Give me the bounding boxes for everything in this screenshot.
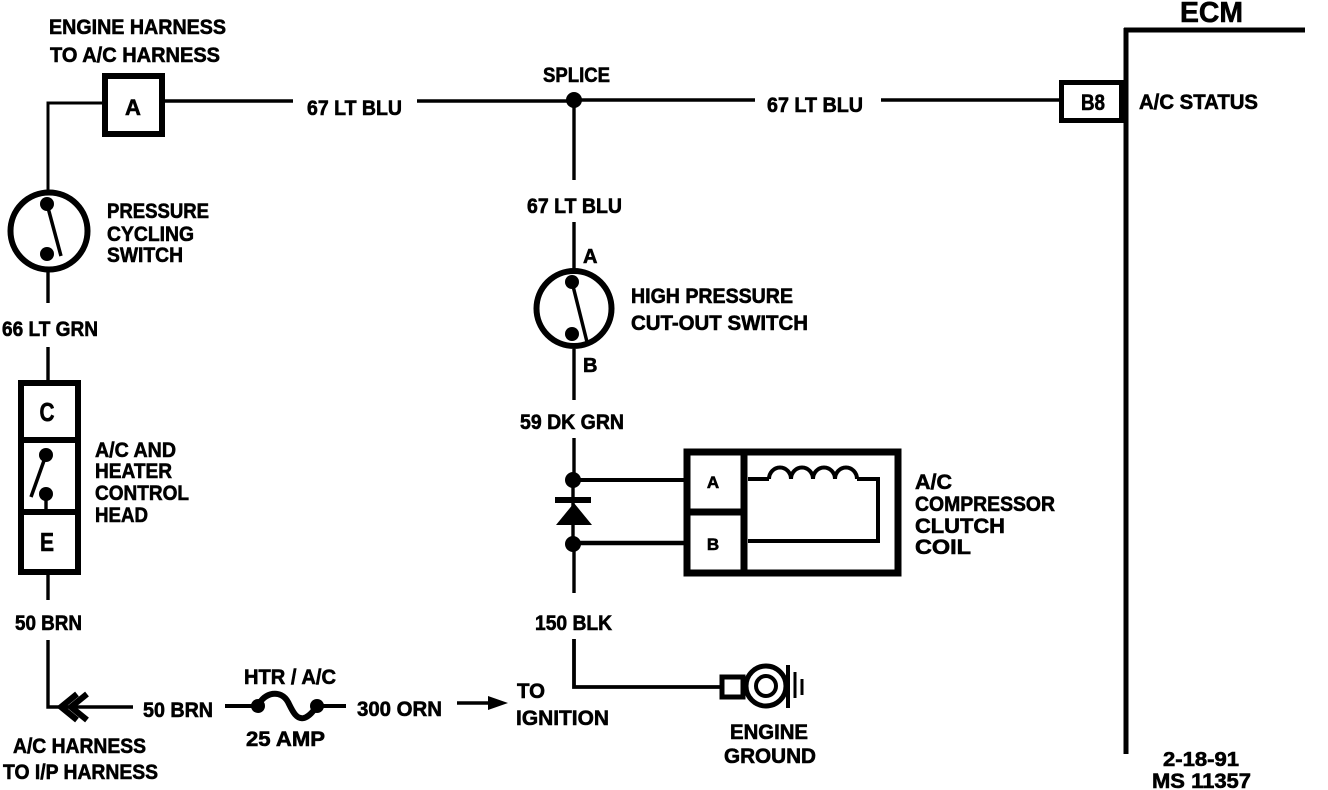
drawing date and number: [1152, 749, 1251, 790]
svg-text:A: A: [125, 95, 141, 120]
svg-text:B: B: [707, 535, 719, 554]
engine ground symbol: [788, 665, 802, 708]
wire pressure cycling switch to 66 LT GRN label: [46, 271, 49, 303]
svg-text:PRESSURE: PRESSURE: [107, 200, 209, 223]
svg-text:A/C AND: A/C AND: [95, 439, 176, 462]
svg-text:COIL: COIL: [915, 536, 971, 559]
svg-text:HIGH PRESSURE: HIGH PRESSURE: [631, 285, 793, 308]
svg-text:A/C STATUS: A/C STATUS: [1139, 91, 1258, 114]
ECM boundary line: [1124, 28, 1305, 754]
label ENGINE HARNESS TO A/C HARNESS: [49, 16, 226, 67]
wire splice to right 67 LT BLU label: [574, 98, 755, 101]
svg-text:50 BRN: 50 BRN: [143, 699, 213, 722]
svg-text:A: A: [583, 246, 597, 268]
high pressure cut-out switch: [537, 271, 612, 346]
svg-text:MS 11357: MS 11357: [1152, 769, 1251, 790]
wire 67 LT BLU label to splice: [417, 99, 574, 102]
wire 150 BLK label to engine ground: [574, 639, 722, 687]
label A/C HARNESS TO I/P HARNESS: [3, 735, 158, 784]
svg-text:A/C HARNESS: A/C HARNESS: [13, 735, 146, 758]
svg-text:A: A: [707, 473, 719, 492]
svg-text:SPLICE: SPLICE: [543, 64, 610, 87]
svg-text:TO A/C HARNESS: TO A/C HARNESS: [50, 44, 220, 67]
svg-text:300 ORN: 300 ORN: [357, 698, 442, 721]
control head switch contacts: [39, 448, 53, 462]
svg-text:HEAD: HEAD: [95, 504, 148, 527]
label A/C COMPRESSOR CLUTCH COIL: [915, 471, 1055, 559]
wire 66 LT GRN label to control head: [46, 347, 49, 382]
node at diode top: [565, 472, 581, 488]
wire 50 BRN label down to harness junction elbow: [48, 640, 133, 707]
svg-text:GROUND: GROUND: [724, 745, 816, 768]
wire 67 LT BLU label to high pressure switch pin A: [572, 222, 575, 270]
svg-text:59 DK GRN: 59 DK GRN: [520, 411, 624, 434]
svg-text:ECM: ECM: [1180, 0, 1243, 29]
connector A (engine-to-A/C harness): [105, 76, 162, 134]
fuse HTR / A/C 25 AMP: [251, 694, 324, 719]
splice junction dot: [566, 92, 582, 108]
svg-text:HTR / A/C: HTR / A/C: [244, 666, 336, 689]
svg-text:A/C: A/C: [915, 471, 952, 494]
svg-text:66 LT GRN: 66 LT GRN: [2, 318, 98, 341]
svg-text:67 LT BLU: 67 LT BLU: [767, 94, 863, 117]
clutch coil winding: [748, 468, 878, 541]
svg-text:COMPRESSOR: COMPRESSOR: [915, 493, 1055, 516]
diode D1 (clutch coil suppression): [555, 480, 592, 544]
svg-text:2-18-91: 2-18-91: [1163, 749, 1239, 771]
wire 59 DK GRN label to diode node: [572, 438, 575, 480]
svg-text:25 AMP: 25 AMP: [246, 728, 325, 751]
node at diode bottom: [565, 536, 581, 552]
wire 67 LT BLU label to ECM pin B8: [881, 98, 1059, 101]
wire high pressure switch pin B to 59 DK GRN label: [572, 349, 575, 400]
svg-text:CUT-OUT SWITCH: CUT-OUT SWITCH: [631, 312, 808, 335]
label HIGH PRESSURE CUT-OUT SWITCH: [631, 285, 808, 335]
wire control head to 50 BRN label: [46, 575, 49, 600]
label PRESSURE CYCLING SWITCH: [107, 200, 209, 267]
svg-text:67 LT BLU: 67 LT BLU: [307, 97, 402, 120]
A/C compressor clutch coil connector and coil: [684, 449, 898, 576]
svg-text:B8: B8: [1081, 90, 1105, 115]
wire diode top node to compressor connector pin A: [573, 478, 686, 482]
svg-text:E: E: [40, 527, 54, 557]
wire splice down to 67 LT BLU label: [572, 100, 575, 180]
harness direction chevrons: [61, 694, 87, 720]
wire connector A to 67 LT BLU label: [165, 99, 293, 102]
svg-text:TO I/P HARNESS: TO I/P HARNESS: [3, 761, 158, 784]
label ENGINE GROUND: [724, 721, 816, 768]
pressure cycling switch: [11, 193, 88, 270]
arrow to ignition: [457, 696, 508, 710]
svg-text:ENGINE HARNESS: ENGINE HARNESS: [49, 16, 226, 39]
label A/C AND HEATER CONTROL HEAD: [95, 439, 189, 527]
svg-text:150 BLK: 150 BLK: [535, 612, 612, 635]
wire diode bottom node to compressor connector pin B: [573, 541, 686, 546]
ECM pin B8 connector box: [1062, 83, 1122, 121]
svg-text:IGNITION: IGNITION: [516, 707, 609, 730]
svg-text:TO: TO: [517, 680, 545, 703]
svg-text:B: B: [583, 355, 597, 377]
wire from connector A left to pressure cycling switch: [48, 103, 102, 190]
svg-text:CYCLING: CYCLING: [107, 223, 194, 246]
svg-text:CONTROL: CONTROL: [95, 482, 189, 505]
svg-text:67 LT BLU: 67 LT BLU: [527, 195, 622, 218]
A/C and heater control head connector: [18, 383, 81, 572]
label TO IGNITION: [516, 680, 609, 730]
wire fuse to 300 ORN label: [322, 704, 346, 708]
svg-text:SWITCH: SWITCH: [107, 244, 183, 267]
engine ground ring terminal: [722, 666, 786, 706]
svg-text:50 BRN: 50 BRN: [15, 612, 82, 635]
svg-text:HEATER: HEATER: [95, 460, 172, 483]
wire diode bottom node to 150 BLK label: [572, 544, 575, 593]
svg-text:ENGINE: ENGINE: [730, 721, 808, 744]
svg-text:CLUTCH: CLUTCH: [915, 515, 1005, 538]
wire 50 BRN label to fuse: [225, 704, 253, 708]
svg-text:C: C: [40, 397, 55, 427]
